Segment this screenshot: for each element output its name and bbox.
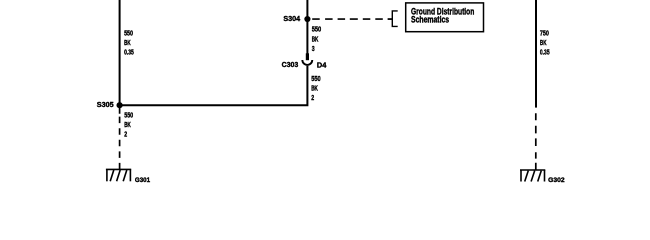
svg-text:BK: BK (124, 38, 131, 47)
node S304 (junction dot) (304, 16, 310, 22)
svg-text:Schematics: Schematics (411, 15, 449, 25)
svg-text:2: 2 (311, 93, 314, 102)
svg-text:550: 550 (124, 111, 133, 120)
svg-text:BK: BK (540, 38, 547, 47)
svg-text:550: 550 (124, 29, 133, 38)
svg-text:S304: S304 (283, 14, 301, 23)
svg-text:G301: G301 (135, 177, 151, 184)
svg-text:2: 2 (124, 129, 127, 138)
svg-text:S305: S305 (97, 100, 114, 109)
svg-text:BK: BK (312, 34, 319, 43)
wire: right vertical (from top) (535, 0, 537, 108)
wire label 750 BK 0.35 (right) (540, 28, 550, 56)
svg-text:BK: BK (311, 84, 318, 93)
svg-text:D4: D4 (317, 60, 327, 69)
wire (dashed) from S304 to Ground Distribution Schematics reference (312, 18, 392, 20)
svg-text:750: 750 (540, 28, 549, 37)
svg-text:G302: G302 (548, 177, 565, 184)
connector C303 female socket (arc) (302, 60, 312, 65)
reference box: Ground Distribution Schematics (406, 3, 484, 32)
svg-text:0.35: 0.35 (124, 48, 134, 57)
wire: horizontal from S305 up to connector C303 (120, 66, 308, 105)
wire label 550 BK 2 (below S305) (124, 111, 133, 139)
svg-text:550: 550 (311, 74, 320, 83)
ground G301 (106, 169, 131, 181)
svg-text:550: 550 (312, 25, 322, 34)
wire (dashed) to ground G302 (535, 113, 537, 170)
ground G302 (520, 170, 545, 182)
svg-text:C303: C303 (282, 60, 299, 69)
node S305 (junction dot) (117, 102, 123, 108)
wire: left vertical (to S305) (119, 0, 121, 105)
wire (dashed) from S305 to ground G301 (119, 108, 121, 170)
svg-text:3: 3 (312, 44, 315, 53)
connector C303 male pin (306, 53, 309, 60)
wire label 550 BK 0.35 (left) (124, 29, 134, 57)
wire label 550 BK 2 (below C303) (311, 74, 320, 102)
wire label 550 BK 3 (below S304) (312, 25, 322, 53)
wire: middle vertical (top, through S304 to C303 pin) (306, 0, 308, 54)
svg-text:BK: BK (124, 120, 131, 129)
svg-text:0.35: 0.35 (540, 47, 550, 56)
off-page connector bracket (388, 11, 398, 27)
